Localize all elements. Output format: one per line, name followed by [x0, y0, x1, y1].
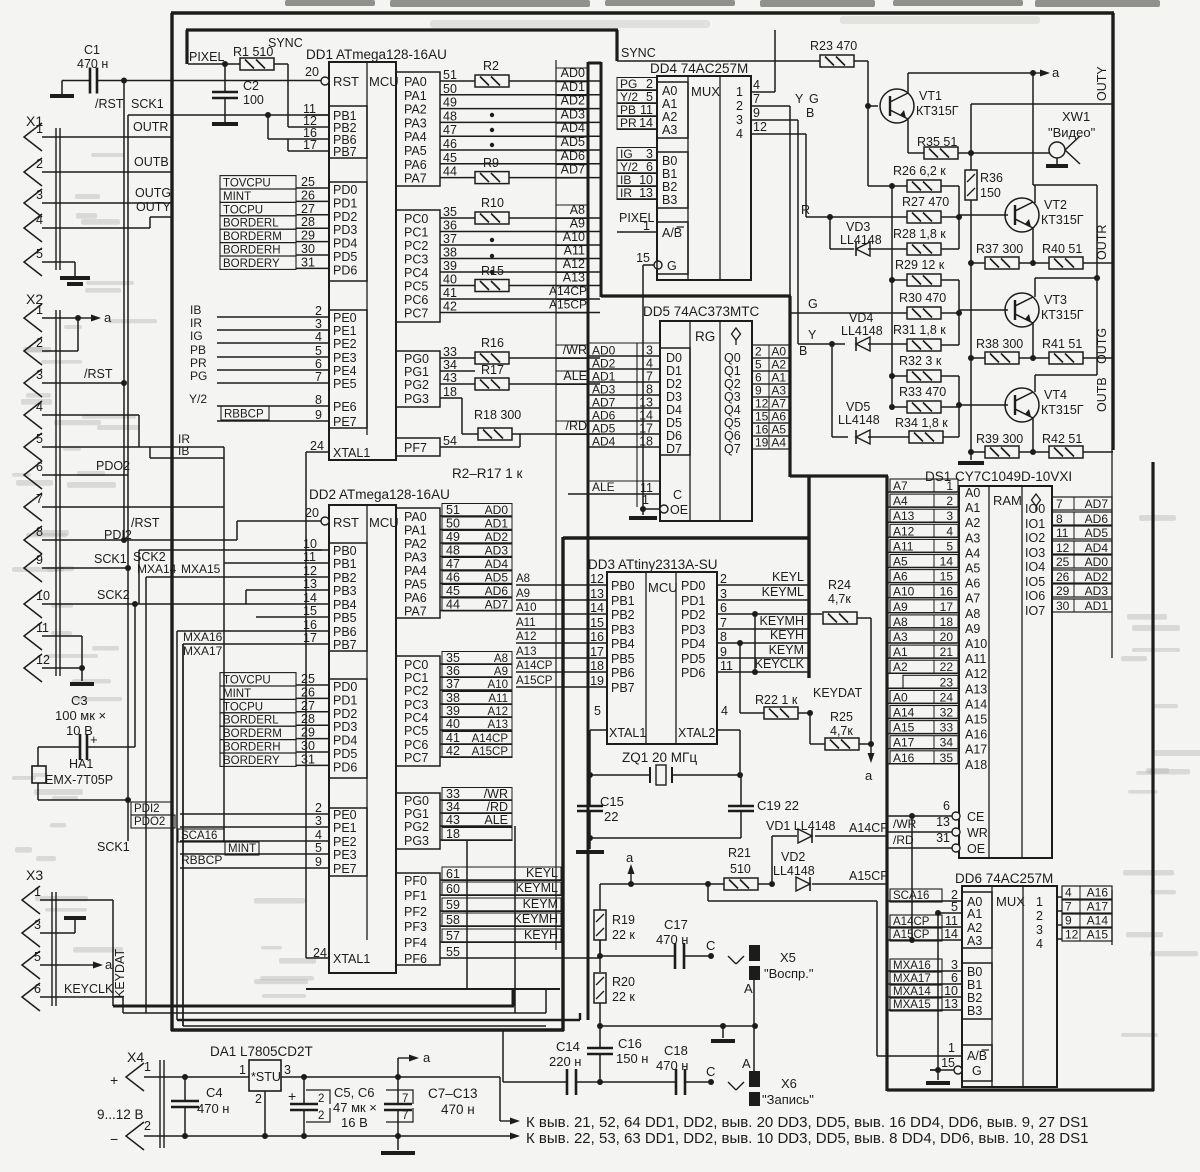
node label TOCPU DD1: [220, 202, 296, 215]
svg-text:R38 300: R38 300: [976, 337, 1023, 351]
svg-text:A6: A6: [965, 577, 980, 591]
svg-text:470 н: 470 н: [441, 1102, 475, 1117]
svg-text:X3: X3: [26, 867, 43, 883]
svg-text:12: 12: [303, 564, 317, 578]
svg-text:D5: D5: [666, 416, 682, 430]
svg-text:A1: A1: [662, 97, 677, 111]
svg-text:24: 24: [310, 439, 324, 453]
wire ladder rail: [891, 186, 893, 280]
IC DD2 PC group box: [396, 656, 440, 766]
connector X2 pin 10: [24, 590, 42, 618]
svg-text:A0: A0: [771, 345, 786, 359]
svg-text:IO7: IO7: [1025, 604, 1045, 618]
svg-text:B1: B1: [967, 978, 982, 992]
svg-text:4: 4: [1036, 937, 1043, 951]
svg-text:C14: C14: [556, 1039, 580, 1054]
node label PDI2: [131, 802, 171, 815]
svg-text:DA1 L7805CD2T: DA1 L7805CD2T: [210, 1044, 313, 1059]
svg-text:MXA17: MXA17: [893, 973, 931, 985]
IC DD1 PF7 box: [396, 438, 440, 456]
svg-text:A14: A14: [965, 697, 987, 711]
resistor R36 vertical: [965, 170, 977, 200]
svg-text:7: 7: [36, 492, 43, 506]
svg-text:R9: R9: [483, 156, 499, 170]
wire thick route down right of DD5: [788, 296, 791, 477]
resistor R23: [820, 55, 854, 67]
svg-text:1: 1: [34, 885, 41, 899]
svg-text:XTAL1: XTAL1: [333, 952, 370, 966]
svg-text:PG0: PG0: [404, 794, 429, 808]
connector X3 body: [51, 892, 53, 1006]
svg-text:2: 2: [755, 345, 762, 359]
wire VT3 collector: [1034, 278, 1036, 297]
svg-text:"Воспр.": "Воспр.": [764, 966, 814, 981]
svg-text:R34 1,8 к: R34 1,8 к: [895, 416, 948, 430]
svg-text:5: 5: [36, 432, 43, 446]
svg-text:PE1: PE1: [333, 324, 357, 338]
svg-text:AD6: AD6: [1085, 512, 1109, 526]
svg-text:PD2: PD2: [681, 608, 705, 622]
svg-text:Q6: Q6: [724, 429, 741, 443]
svg-text:A16: A16: [893, 751, 915, 765]
svg-text:PC0: PC0: [404, 658, 428, 672]
svg-text:КТ315Г: КТ315Г: [916, 104, 959, 118]
wire AD1 DD2: [440, 529, 512, 531]
wire DS1 IO column border: [1111, 449, 1113, 658]
wire KEYDAT thick bottom: [113, 1005, 514, 1008]
IC DD4 B group box: [657, 152, 688, 208]
svg-text:A12: A12: [965, 667, 987, 681]
wire AD0 DD1: [462, 80, 475, 82]
svg-text:+: +: [110, 1072, 118, 1088]
svg-text:18: 18: [443, 385, 457, 399]
node label MINT DD2: [225, 842, 259, 855]
capacitor C17: [674, 943, 677, 969]
node DA1 gnd: [262, 1133, 268, 1139]
svg-text:XTAL2: XTAL2: [678, 726, 715, 740]
wire R24 pull link: [754, 614, 756, 672]
svg-text:WR: WR: [967, 826, 988, 840]
svg-text:B3: B3: [967, 1004, 982, 1018]
svg-text:PG: PG: [620, 77, 637, 91]
svg-text:43: 43: [443, 371, 457, 385]
svg-text:12: 12: [590, 572, 604, 586]
transistor VT2: [1005, 198, 1039, 232]
svg-text:51: 51: [446, 503, 460, 517]
node X2-8 /RST junction: [121, 537, 127, 543]
svg-text:6: 6: [646, 160, 653, 174]
svg-text:PE0: PE0: [333, 808, 357, 822]
svg-text:C: C: [673, 488, 682, 502]
svg-text:2: 2: [315, 801, 322, 815]
svg-text:R23 470: R23 470: [810, 39, 857, 53]
wire X2-10 SCK2: [42, 603, 139, 605]
svg-text:PB3: PB3: [611, 623, 635, 637]
wire AD7 DD2: [440, 610, 512, 612]
svg-text:PA2: PA2: [404, 537, 427, 551]
wire SYNC left drop to PIXEL: [185, 30, 188, 64]
svg-text:B: B: [799, 344, 807, 358]
svg-text:2: 2: [646, 77, 653, 91]
svg-text:57: 57: [446, 929, 460, 943]
svg-text:50: 50: [443, 82, 457, 96]
svg-text:PE7: PE7: [333, 862, 357, 876]
wire /RD DD1: [461, 398, 463, 434]
svg-text:KEYMH: KEYMH: [514, 912, 558, 926]
IC DD4 body: [657, 76, 751, 280]
svg-text:47: 47: [443, 123, 457, 137]
diode VD2: [796, 877, 810, 891]
svg-text:DD2 ATmega128-16AU: DD2 ATmega128-16AU: [309, 487, 450, 502]
svg-text:33: 33: [443, 345, 457, 359]
svg-text:+: +: [90, 732, 98, 747]
wire DD2 PB3 stub: [246, 589, 306, 591]
wire AD3 DD1: [462, 121, 600, 123]
svg-text:PC5: PC5: [404, 280, 428, 294]
wire DD6 G gnd: [937, 1070, 939, 1080]
svg-text:12: 12: [1065, 928, 1079, 942]
IC DS1 address input rows A7,A4,A13,A12,A11,A5,A6,A10,A9,A8,A3,A1,A2,23,A0,A14,A15,A17,A16: [887, 491, 959, 493]
ground R36 rail: [970, 452, 972, 460]
svg-text:3: 3: [736, 113, 743, 127]
ground DD5: [629, 516, 657, 520]
node DD5 OE gnd: [640, 506, 646, 512]
svg-text:RST: RST: [333, 74, 359, 89]
svg-text:DD4 74AC257M: DD4 74AC257M: [650, 61, 748, 76]
svg-text:PG3: PG3: [404, 834, 429, 848]
IC DD6 A group box: [962, 892, 992, 948]
node ZQ1 right: [737, 772, 743, 778]
svg-text:11: 11: [36, 621, 49, 635]
svg-text:1: 1: [736, 85, 743, 99]
node R37 in: [968, 260, 974, 266]
svg-text:AD4: AD4: [485, 557, 509, 571]
svg-text:PD5: PD5: [333, 747, 357, 761]
svg-text:17: 17: [303, 631, 317, 645]
wire PG1 DD1: [462, 370, 475, 372]
svg-text:PR: PR: [190, 356, 207, 370]
svg-text:7: 7: [315, 370, 322, 384]
svg-text:PE4: PE4: [333, 364, 357, 378]
svg-text:24: 24: [940, 690, 954, 704]
node DS1 CE: [909, 813, 915, 819]
svg-text:A17: A17: [1087, 900, 1109, 914]
node R24 link top: [752, 611, 758, 617]
diode VD5: [856, 430, 870, 444]
wire X5 A: [753, 980, 755, 1026]
svg-text:R22 1 к: R22 1 к: [755, 693, 798, 707]
capacitor C16: [587, 1047, 613, 1050]
svg-text:KEYCLK: KEYCLK: [755, 657, 805, 671]
svg-text:4: 4: [946, 524, 953, 538]
resistor R30: [907, 307, 941, 319]
svg-text:2: 2: [36, 157, 43, 171]
wire power plus: [144, 1076, 249, 1078]
svg-text:A14CP: A14CP: [472, 733, 509, 745]
svg-text:A8: A8: [893, 615, 908, 629]
svg-text:R17: R17: [481, 363, 504, 377]
svg-text:A12: A12: [516, 631, 536, 643]
svg-text:8: 8: [315, 393, 322, 407]
node label RBBCP DD1: [221, 406, 269, 420]
wire AD4 DD1: [462, 135, 600, 137]
svg-text:IB: IB: [190, 303, 201, 317]
svg-text:9: 9: [1065, 914, 1072, 928]
svg-text:35: 35: [940, 751, 954, 765]
svg-text:16: 16: [590, 630, 604, 644]
node VD4 in: [829, 341, 835, 347]
svg-text:BORDERY: BORDERY: [223, 258, 280, 270]
wire mid gnd stem: [722, 1026, 724, 1038]
svg-text:KEYM: KEYM: [523, 897, 558, 911]
svg-text:PD4: PD4: [333, 734, 357, 748]
svg-text:IG: IG: [620, 147, 633, 161]
node label BORDERL DD2: [220, 713, 296, 726]
svg-text:PD1: PD1: [333, 196, 357, 210]
svg-text:A11: A11: [965, 652, 986, 666]
svg-text:PB0: PB0: [333, 544, 357, 558]
svg-text:27: 27: [301, 202, 315, 216]
svg-text:BORDERH: BORDERH: [223, 742, 281, 754]
svg-text:47: 47: [446, 557, 460, 571]
svg-text:PB7: PB7: [333, 638, 357, 652]
svg-text:18: 18: [446, 827, 460, 841]
svg-text:A1: A1: [967, 907, 982, 921]
svg-text:A15: A15: [1087, 928, 1109, 942]
svg-text:A14: A14: [893, 706, 915, 720]
resistor R15: [475, 280, 509, 292]
wire DD4 out7 Y: [751, 105, 790, 107]
svg-text:46: 46: [443, 137, 457, 151]
svg-text:25: 25: [301, 175, 315, 189]
svg-text:PD3: PD3: [681, 623, 705, 637]
svg-text:A5: A5: [965, 562, 980, 576]
wire route bottom from left edge to DD3 section: [171, 1028, 564, 1031]
svg-text:VD3: VD3: [846, 220, 870, 234]
svg-text:MXA14: MXA14: [137, 562, 177, 576]
svg-text:A2: A2: [893, 660, 908, 674]
wire PB7 stub: [288, 150, 306, 152]
svg-text:AD6: AD6: [485, 584, 509, 598]
svg-text:−: −: [110, 1131, 118, 1147]
wire R33 in: [892, 406, 907, 408]
wire OUTB long route right edge: [1111, 13, 1114, 450]
wire a rail down: [1032, 73, 1034, 185]
three-state marker DS1: [1032, 494, 1041, 506]
svg-text:IO6: IO6: [1025, 589, 1045, 603]
wire bus thin vertical: [555, 60, 557, 950]
wire AD5 DD1: [462, 149, 600, 151]
resistor R1: [240, 58, 274, 70]
svg-text:PG2: PG2: [404, 378, 429, 392]
svg-text:DD6 74AC257M: DD6 74AC257M: [955, 871, 1053, 886]
wire R24 out: [857, 617, 871, 619]
svg-text:R39 300: R39 300: [976, 432, 1023, 446]
wire C14 wires: [503, 1081, 567, 1083]
node DD6 A3: [909, 937, 915, 943]
wire PF7 link: [519, 434, 521, 447]
svg-text:BORDERL: BORDERL: [223, 218, 279, 230]
svg-text:KEYML: KEYML: [516, 881, 558, 895]
svg-text:IB: IB: [178, 444, 189, 458]
svg-text:37: 37: [446, 677, 460, 691]
wire X2-3 /RST: [42, 382, 124, 384]
node R39 in: [968, 449, 974, 455]
wire AD4 DD2: [440, 569, 512, 571]
svg-text:61: 61: [446, 867, 460, 881]
wire DD2 PB4: [139, 603, 306, 605]
resistor R39: [985, 446, 1019, 458]
connector X4 pin 2: [126, 1122, 144, 1150]
svg-text:PA6: PA6: [404, 158, 427, 172]
svg-text:1: 1: [239, 1063, 246, 1077]
svg-text:C: C: [706, 1064, 715, 1079]
svg-text:AD1: AD1: [1085, 599, 1109, 613]
svg-text:8: 8: [720, 630, 727, 644]
svg-text:25: 25: [301, 672, 315, 686]
svg-text:AD2: AD2: [485, 530, 509, 544]
svg-text:10: 10: [944, 984, 958, 998]
svg-text:OUTG: OUTG: [1095, 328, 1109, 364]
ground power: [397, 1136, 399, 1150]
wire thick bus left leg: [587, 62, 590, 1020]
svg-text:PB7: PB7: [333, 145, 357, 159]
svg-text:R27 470: R27 470: [902, 195, 949, 209]
svg-text:A16: A16: [965, 728, 987, 742]
svg-text:A9: A9: [494, 666, 508, 678]
svg-text:/WR: /WR: [893, 817, 917, 831]
svg-text:C7–C13: C7–C13: [428, 1086, 478, 1101]
node C16 bottom: [597, 1079, 603, 1085]
resistor R25: [825, 738, 859, 750]
svg-text:7: 7: [1065, 900, 1072, 914]
arrow a keyboard: [870, 744, 872, 756]
svg-text:PE7: PE7: [333, 415, 357, 429]
node /RST junction: [121, 78, 127, 84]
ground X1-5: [60, 276, 90, 280]
IC DD1 PC group box: [396, 210, 440, 322]
svg-text:PB2: PB2: [333, 571, 357, 585]
crystal ZQ1: [590, 774, 650, 776]
svg-text:3: 3: [646, 147, 653, 161]
svg-text:58: 58: [446, 913, 460, 927]
wire MXA14 MXA15 wires: [146, 576, 306, 578]
svg-text:PIXEL: PIXEL: [189, 50, 224, 64]
wire X2-5 IR IB: [42, 446, 224, 448]
svg-text:TOCPU: TOCPU: [223, 701, 263, 713]
wire X2-7: [42, 506, 224, 508]
svg-text:R36: R36: [980, 171, 1003, 185]
wire SYNC to R23: [617, 60, 820, 62]
wire A9 DD2: [440, 676, 512, 678]
wire route DD3 section top: [563, 536, 810, 539]
svg-text:R20: R20: [612, 975, 635, 989]
svg-text:9: 9: [315, 855, 322, 869]
wire R27 out: [941, 216, 959, 218]
svg-text:A3: A3: [967, 934, 982, 948]
svg-text:PD2: PD2: [333, 707, 357, 721]
capacitor C5 C6: [290, 1103, 318, 1106]
svg-text:IO1: IO1: [1025, 517, 1045, 531]
connector X3 pin 6: [22, 983, 40, 1011]
svg-text:A5: A5: [771, 423, 786, 437]
IC DD4 select group box: [657, 222, 688, 274]
svg-text:Y/2: Y/2: [620, 90, 638, 104]
svg-text:470 н: 470 н: [77, 57, 108, 71]
svg-text:OE: OE: [670, 503, 688, 517]
svg-text:A4: A4: [893, 494, 908, 508]
wire R19 stem: [599, 940, 601, 958]
wire A12 DD1: [462, 271, 600, 273]
node KEYH R22: [737, 640, 743, 646]
svg-text:A2: A2: [965, 516, 980, 530]
svg-text:MINT: MINT: [223, 688, 251, 700]
svg-text:PD6: PD6: [333, 760, 357, 774]
node label BORDERM DD2: [220, 726, 296, 739]
connector X2 body: [55, 310, 57, 676]
svg-text:AD2: AD2: [1085, 570, 1109, 584]
svg-text:PC4: PC4: [404, 711, 428, 725]
wire a rail top: [908, 72, 1033, 74]
svg-text:9: 9: [36, 553, 43, 567]
node label SCA16: [178, 829, 224, 842]
svg-text:4,7к: 4,7к: [828, 592, 851, 606]
svg-text:PB6: PB6: [333, 625, 357, 639]
svg-text:XTAL1: XTAL1: [333, 446, 370, 460]
svg-text:4: 4: [753, 78, 760, 92]
svg-text:3: 3: [315, 317, 322, 331]
capacitor C4: [171, 1100, 199, 1103]
svg-text:PF2: PF2: [404, 905, 427, 919]
svg-text:50: 50: [446, 517, 460, 531]
svg-text:5: 5: [951, 900, 958, 914]
wire PB6 link: [268, 138, 306, 140]
connector X2 pin 8: [24, 526, 42, 554]
svg-text:13: 13: [639, 186, 653, 200]
wire DD6 G stub: [930, 1069, 938, 1071]
svg-text:6: 6: [943, 799, 950, 813]
svg-text:44: 44: [443, 165, 457, 179]
svg-text:C1: C1: [84, 43, 100, 57]
node label BORDERL DD1: [220, 216, 296, 229]
resistor R16: [475, 352, 509, 364]
ground DD6: [926, 1081, 950, 1085]
svg-text:PB1: PB1: [333, 557, 357, 571]
IC DD6 select group box: [962, 1045, 992, 1081]
connector X2 pin 6: [24, 461, 42, 489]
svg-text:9...12 В: 9...12 В: [97, 1107, 144, 1122]
svg-text:5: 5: [594, 704, 601, 718]
wire XTAL1 DD3: [590, 729, 607, 731]
wire PF6 to tape: [440, 957, 600, 959]
svg-text:7: 7: [753, 92, 760, 106]
resistor R37: [985, 257, 1019, 269]
svg-text:PA4: PA4: [404, 564, 427, 578]
wire A10 DD2: [440, 689, 512, 691]
IC DD5 input cell column: [588, 342, 660, 344]
svg-text:A10: A10: [488, 679, 508, 691]
node VD riser: [769, 881, 775, 887]
svg-text:6: 6: [315, 357, 322, 371]
svg-text:2: 2: [36, 336, 43, 350]
wire A10 DD1: [462, 244, 600, 246]
buzzer HA1: [32, 766, 46, 783]
svg-text:AD1: AD1: [592, 370, 616, 384]
svg-text:PD1: PD1: [333, 693, 357, 707]
svg-text:33: 33: [940, 721, 954, 735]
svg-text:OUTB: OUTB: [134, 155, 169, 169]
wire OUTB long route top: [171, 11, 1114, 14]
